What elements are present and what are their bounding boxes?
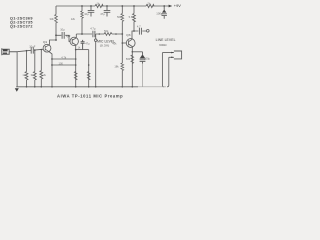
capacitor C3 (62, 32, 64, 39)
capacitor C8 (output) (139, 28, 141, 35)
ground bottom rail (16, 86, 138, 88)
output jack (162, 51, 181, 59)
wire Q2 emitter (75, 45, 77, 87)
terminal MIC LEVEL (94, 39, 97, 42)
wire bias line x122.3 (base to ground) (121, 43, 123, 87)
resistor R8 (x134 rail to collector) (133, 6, 136, 31)
svg-text:12k: 12k (71, 17, 76, 21)
wire Q1 collector load (x56) (55, 6, 57, 40)
svg-text:47µ: 47µ (100, 12, 105, 16)
svg-text:Q3-2SC372: Q3-2SC372 (10, 25, 33, 29)
resistor R5 (Q2 emitter x75.7) (74, 72, 77, 80)
svg-text:(0.3V): (0.3V) (100, 44, 110, 48)
node dot (52,65) (51, 64, 53, 66)
wire W1 (Q2 collector to Q3 base) (76, 33, 122, 35)
wire Q3 base (122, 42, 126, 44)
wire jack tip (167, 57, 169, 87)
wire input (17, 49, 43, 51)
capacitor C5 electrolytic (rail x107) (104, 6, 111, 17)
resistor R2 (x34.8) (33, 50, 36, 87)
node dot (122.3,86.8) (122, 86, 124, 88)
svg-text:Q3: Q3 (126, 33, 130, 37)
ground symbol (15, 88, 19, 92)
resistor R10 (series in rail) (146, 4, 154, 7)
wire Q2 collector to W1 (75, 34, 77, 38)
capacitor C6 (series in W1) (93, 31, 95, 38)
terminal LINE LEVEL (147, 30, 150, 33)
+9V arrowhead (169, 5, 173, 8)
wire emitter tick Q3 (132, 51, 142, 53)
svg-text:4.7k: 4.7k (61, 56, 67, 60)
transistor Q3 (126, 39, 135, 48)
wire Wb (52, 64, 76, 66)
svg-text:47µ: 47µ (85, 41, 90, 45)
wire jack sleeve (162, 53, 164, 87)
node dot W1 (116) (115, 33, 117, 35)
node dot (134,31) (133, 30, 135, 32)
svg-text:10µF: 10µF (29, 44, 36, 48)
input jack MIC (2, 48, 17, 55)
svg-text:10µ: 10µ (60, 27, 65, 31)
resistor R9 (Q3 emitter) (131, 55, 134, 63)
resistor bias upper (x122.3) (121, 14, 124, 22)
svg-text:10µ: 10µ (84, 12, 89, 16)
jack prong tips (171, 52, 174, 58)
transistor Q2 (70, 37, 78, 45)
transistor Q1 (43, 44, 51, 52)
node dot (134,6) (133, 5, 135, 7)
node dot (75.7,65) (75, 64, 77, 66)
resistor R1 (x26.5) (25, 51, 28, 87)
node dot W1 (99.3) (99, 33, 101, 35)
svg-text:4.7µ: 4.7µ (90, 27, 96, 31)
svg-text:33k: 33k (50, 17, 55, 21)
svg-text:50k: 50k (104, 29, 109, 33)
wire feedback Wa (52, 58, 76, 60)
capacitor Q2 emitter bypass (smudge) (81, 40, 85, 50)
capacitor C9 electrolytic (Q3 emitter bypass) (140, 52, 146, 64)
svg-text:Q2: Q2 (66, 34, 70, 38)
node dot (75.7,49.6) (75, 49, 77, 51)
capacitor C4 electrolytic (rail x91) (88, 6, 95, 17)
svg-text:4.7: 4.7 (137, 24, 141, 28)
node dot (122.3,43) (122, 42, 124, 44)
input jack inner contacts (3, 49, 8, 51)
node dot input/R1 (26, 50, 28, 52)
wire Q1 emitter (49, 52, 52, 87)
node dot input/R3 (41, 49, 43, 51)
svg-text:5.6k: 5.6k (129, 15, 135, 19)
resistor R3 (x41.3) (40, 50, 43, 87)
node dot (122.3,6) (121, 5, 123, 7)
wire output (134, 30, 146, 32)
svg-text:AIWA TP-1011 MIC Preamp: AIWA TP-1011 MIC Preamp (57, 93, 123, 98)
svg-text:Q1: Q1 (43, 40, 47, 44)
svg-text:560: 560 (126, 57, 131, 61)
resistor bias lower (x122.3) (121, 63, 124, 71)
capacitor C1 (input coupling) (31, 47, 33, 53)
svg-text:18k: 18k (114, 65, 119, 69)
wire rail drop x82 (81, 6, 83, 34)
wire bias line x122.3 (rail to base) (121, 6, 123, 43)
capacitor C10 electrolytic (rail x166) (162, 6, 167, 19)
resistor R4 (Q1 load) (55, 15, 58, 23)
wire Q1 collector (50, 40, 57, 45)
wire MIC tap x95.5 (95, 34, 97, 87)
wire Q3 emitter (131, 47, 133, 87)
node dot (52,59) (51, 58, 53, 60)
node dot (82,6) (81, 5, 83, 7)
node dot (75.7,59) (75, 58, 77, 60)
svg-text:100: 100 (59, 61, 64, 65)
wire coupling node to C3 (56, 35, 70, 41)
wire +9V top rail (56, 5, 172, 7)
svg-text:+9V: +9V (174, 3, 181, 8)
capacitor C5b / resistor x88.7 (88, 50, 90, 87)
wire emitter tick (76, 49, 89, 51)
node dot (56,35) (55, 34, 57, 36)
svg-text:600Ω: 600Ω (159, 43, 167, 47)
wire Q3 collector (132, 31, 134, 39)
node dot (132.3,51.8) (132, 51, 134, 53)
svg-text:LINE LEVEL: LINE LEVEL (156, 38, 176, 42)
node dots on ground rail (26, 86, 28, 88)
resistor R7 (series in rail) (95, 4, 103, 7)
node dot (56,40) (55, 39, 57, 41)
node dot (82,33.5) (81, 33, 83, 35)
node dot (88.7,65) (88, 64, 90, 66)
node dot input/R2 (34, 49, 36, 51)
resistor Q2 load (x82) (81, 11, 84, 18)
wire shield drop x17.1 (16, 52, 18, 87)
svg-text:100µ: 100µ (144, 57, 150, 61)
svg-text:56k: 56k (117, 15, 122, 19)
node dot (122.3,34) on W1 (121, 33, 123, 35)
svg-text:100µ: 100µ (156, 12, 163, 16)
resistor R6 (series 50k in W1) (104, 33, 112, 36)
